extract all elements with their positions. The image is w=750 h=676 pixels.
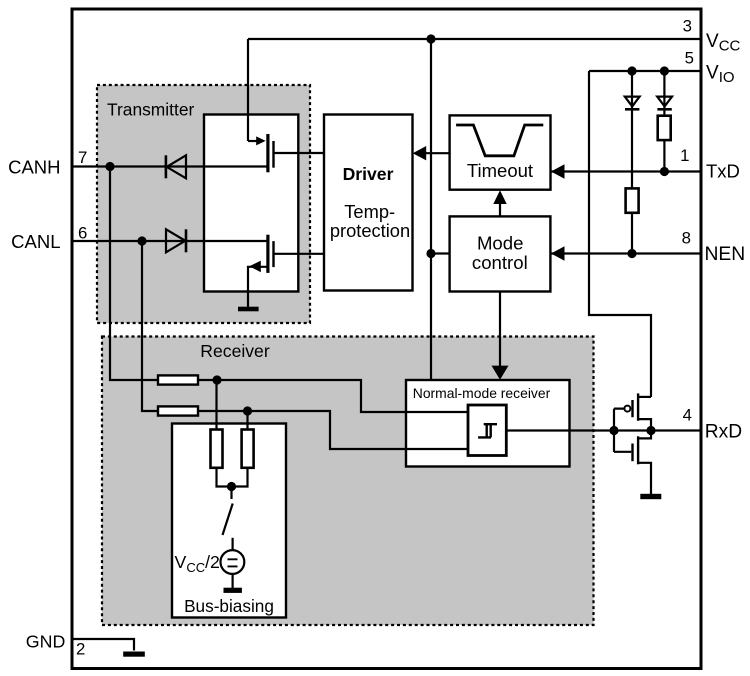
- svg-text:control: control: [472, 252, 528, 273]
- node R4 junction: [243, 406, 252, 415]
- node R3 junction: [212, 375, 221, 384]
- transistor Q3 gate bubble: [624, 406, 630, 412]
- wire R4 to NMR lower input: [198, 411, 468, 449]
- switch S1 stub: [230, 487, 232, 500]
- hysteresis icon: [478, 424, 497, 437]
- svg-text:2: 2: [76, 640, 85, 659]
- node CANL junction: [137, 236, 146, 245]
- switch S1 blade: [223, 504, 233, 536]
- svg-text:6: 6: [78, 224, 87, 243]
- wire CANL: [71, 240, 267, 242]
- node CANH junction: [105, 162, 114, 171]
- svg-text:7: 7: [78, 148, 87, 167]
- wire mode control to normal-mode receiver: [499, 292, 501, 368]
- ground transmitter: [238, 307, 259, 312]
- wire bus stub left: [215, 380, 217, 430]
- svg-text:4: 4: [683, 406, 692, 425]
- resistor R5 bus left: [211, 430, 223, 468]
- transistor Q4 channel bar: [637, 436, 639, 464]
- svg-text:TxD: TxD: [706, 160, 740, 181]
- ground output stage: [640, 494, 661, 499]
- node bus junction: [227, 482, 236, 491]
- svg-text:Mode: Mode: [477, 233, 524, 254]
- svg-text:3: 3: [683, 16, 692, 35]
- svg-text:RxD: RxD: [705, 422, 742, 443]
- wire source to ground: [232, 574, 234, 588]
- resistor R6 bus right: [242, 430, 254, 468]
- resistor R1 (NEN branch): [626, 188, 639, 212]
- node VIO-D4 junction: [660, 66, 669, 75]
- svg-text:5: 5: [685, 48, 694, 67]
- wire TxD: [551, 170, 702, 172]
- svg-text:CANL: CANL: [11, 231, 60, 252]
- transistor Q1 source arrowhead: [256, 136, 265, 145]
- wire CANH drop to receiver: [110, 167, 158, 381]
- resistor R4 receiver lower: [158, 406, 198, 415]
- wire GND pin: [71, 639, 134, 651]
- wire VCC down to transmitter: [247, 39, 249, 141]
- wire Q2 drain to driver: [274, 253, 325, 255]
- svg-text:1: 1: [680, 146, 689, 165]
- transistor Q3 gate bar: [631, 400, 633, 417]
- diode D2 CANL: [166, 229, 186, 252]
- arrowhead into driver: [413, 146, 427, 160]
- wire Q3 source: [638, 396, 651, 398]
- svg-text:NEN: NEN: [705, 244, 746, 265]
- transistor Q4 gate bar: [631, 444, 633, 462]
- source V1 equals sign: [228, 559, 238, 566]
- wire switch to source: [232, 538, 234, 551]
- ground bus-biasing: [224, 588, 242, 593]
- block Bus-biasing: [172, 424, 286, 618]
- wire VCC down to normal-mode receiver: [430, 39, 432, 380]
- node VIO-D3 junction: [627, 66, 636, 75]
- wire VCC rail: [248, 38, 701, 40]
- wire VIO rail: [589, 70, 701, 72]
- node NEN-R1 junction: [627, 249, 636, 258]
- transistor Q1 upper (source arrow wire): [248, 140, 258, 142]
- wire Q2 source to ground: [248, 267, 267, 307]
- transistor Q3 channel bar: [637, 393, 639, 420]
- wire timeout to driver: [424, 152, 450, 154]
- wire Q4 source to ground: [638, 463, 651, 494]
- transmitter dashed gray box: [97, 85, 310, 323]
- source V1 circle: [221, 550, 245, 574]
- transistor Q2 right bar: [272, 241, 274, 267]
- svg-text:8: 8: [682, 229, 691, 248]
- transistor Q1 right bar: [272, 141, 274, 168]
- wire VIO down to output stage: [589, 71, 651, 397]
- wire Q1 drain to driver: [274, 152, 325, 154]
- svg-text:Temp-: Temp-: [344, 201, 395, 222]
- timeout waveform icon: [456, 125, 543, 156]
- diode D1 CANH: [166, 155, 186, 178]
- arrowhead down into receiver: [492, 366, 509, 380]
- diode D3 (NEN branch): [625, 71, 640, 254]
- wire mode control left stub: [431, 252, 450, 254]
- svg-text:Normal-mode receiver: Normal-mode receiver: [413, 385, 551, 401]
- arrowhead into timeout right: [551, 164, 565, 178]
- block Mode control: [450, 216, 551, 291]
- node VCC junction: [426, 34, 435, 43]
- svg-text:Receiver: Receiver: [200, 341, 270, 361]
- node inverter input junction: [609, 426, 618, 435]
- transistor Q3 PMOS gate wiring: [614, 409, 624, 452]
- wire CANL drop to receiver: [142, 241, 158, 411]
- transistor Q1 left bar: [266, 134, 269, 172]
- block Timeout: [450, 115, 551, 189]
- wire bus stub right: [246, 411, 248, 430]
- diode D4 (TxD branch): [657, 71, 672, 172]
- wire NMR upper input inner: [406, 411, 468, 413]
- wire mode control to timeout: [499, 202, 501, 216]
- comparator U1 hysteresis box: [468, 405, 506, 456]
- node TxD-R2 junction: [660, 167, 669, 176]
- svg-text:Bus-biasing: Bus-biasing: [184, 596, 274, 616]
- resistor R3 receiver upper: [158, 375, 198, 384]
- svg-text:Timeout: Timeout: [467, 160, 533, 181]
- node NEN-vertical junction: [426, 249, 435, 258]
- svg-text:CANH: CANH: [8, 156, 60, 177]
- node inverter output junction: [646, 426, 655, 435]
- wire NMR lower input inner: [406, 448, 468, 450]
- wire Q4 drain: [638, 431, 651, 439]
- ground GND pin: [123, 652, 145, 657]
- transistor Q2 source arrowhead: [249, 261, 260, 273]
- block Normal-mode receiver: [406, 380, 570, 467]
- svg-text:protection: protection: [330, 220, 410, 241]
- wire CANH: [71, 165, 267, 167]
- wire resistors to switch node: [217, 468, 248, 487]
- transmitter mosfet white box: [204, 115, 298, 292]
- wire RxD row: [506, 429, 701, 431]
- svg-text:Driver: Driver: [343, 164, 394, 184]
- svg-text:GND: GND: [26, 632, 66, 652]
- transistor Q2 lower (left bar): [266, 235, 269, 273]
- arrowhead into mode control right: [551, 246, 565, 260]
- svg-text:Transmitter: Transmitter: [107, 99, 194, 119]
- wire Q3 drain: [638, 419, 651, 430]
- wire R3 to NMR upper input: [198, 380, 468, 412]
- arrowhead up into timeout: [493, 190, 506, 204]
- resistor R2 (TxD branch): [658, 116, 671, 140]
- receiver dashed gray box: [102, 337, 594, 626]
- transistor Q4 NMOS gate wiring: [614, 451, 631, 453]
- block Driver: [324, 115, 413, 291]
- wire NEN: [551, 252, 702, 254]
